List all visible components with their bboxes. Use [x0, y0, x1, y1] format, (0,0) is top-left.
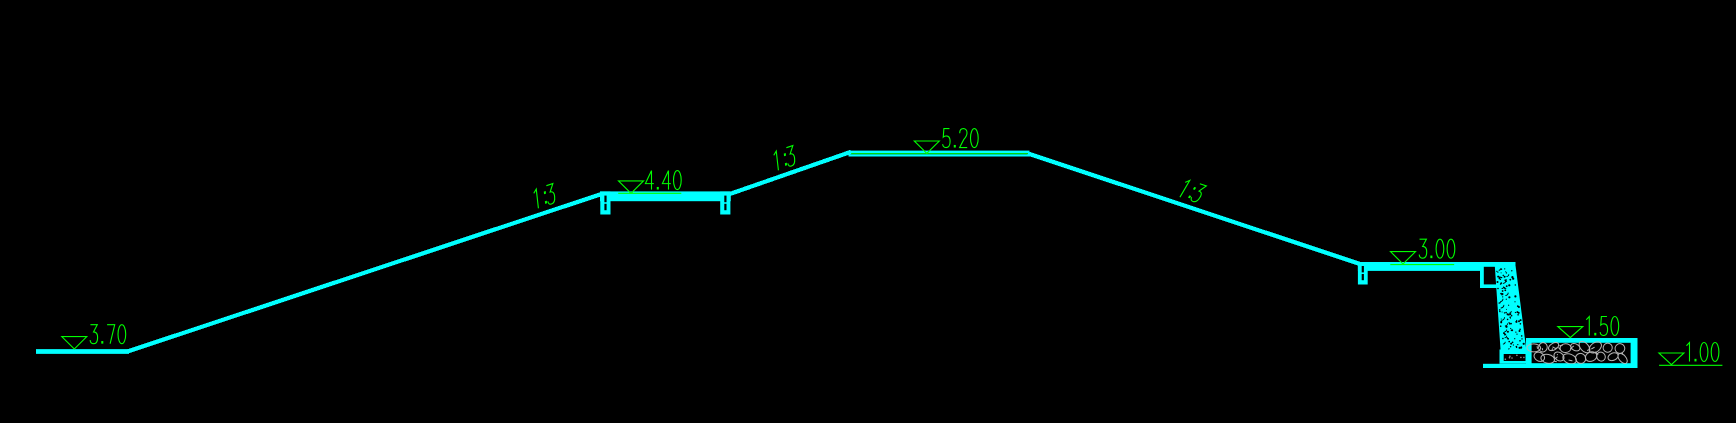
- slope label 1:3 (right): [1177, 179, 1207, 202]
- middle slope 1:3: [728, 152, 852, 195]
- retaining wall column: [1495, 266, 1527, 351]
- crest pavement top line: [849, 151, 1030, 154]
- berm 3.00 surface bar: [1358, 262, 1482, 271]
- left slope 1:3: [128, 194, 604, 352]
- wall cap block: [1480, 262, 1516, 288]
- cap block hole: [1484, 267, 1496, 285]
- berm 4.40 right edge tab: [720, 191, 730, 214]
- wall footing: [1500, 350, 1530, 364]
- level symbol 1.50: [1558, 327, 1583, 338]
- left ground line at el. 3.70: [36, 349, 129, 354]
- slope label 1:3 (middle): [773, 145, 795, 171]
- berm 3.00 left edge tab: [1358, 262, 1368, 285]
- apron stones: [1527, 344, 1541, 352]
- crest green centerline: [851, 153, 1028, 154]
- wall stone speckles: [1500, 293, 1502, 295]
- crest pavement bottom line: [849, 154, 1030, 156]
- right slope 1:3: [1028, 154, 1360, 265]
- level symbol 5.20: [914, 141, 939, 153]
- berm 4.40 left edge tab: [600, 191, 610, 214]
- berm 4.40 surface bar: [600, 191, 731, 201]
- level symbol 3.70: [62, 337, 87, 349]
- level symbol 1.00: [1659, 353, 1684, 365]
- slope label 1:3 (left): [533, 183, 555, 209]
- foundation base line: [1483, 364, 1638, 368]
- stone apron box: [1526, 338, 1638, 368]
- level symbol 3.00: [1391, 252, 1416, 264]
- level symbol 4.40: [619, 181, 644, 193]
